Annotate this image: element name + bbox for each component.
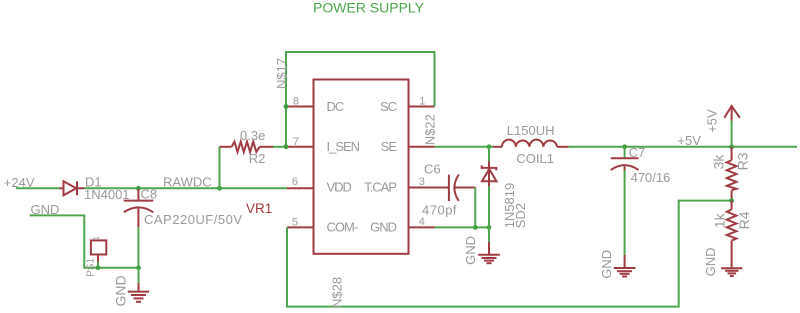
capacitor C8 [124,189,154,227]
svg-text:SE: SE [381,139,398,154]
svg-text:C6: C6 [424,162,441,177]
svg-text:SD2: SD2 [513,203,528,228]
junction R3/R4 [729,198,734,203]
wire R2 to pin7 [273,146,286,148]
diode D1 [59,181,84,195]
pin 1 SC stub [409,106,435,108]
inductor L1 COIL1 [493,140,569,147]
wire C6 down [474,188,476,228]
wire +5V rail [569,146,798,148]
junction pin7 [284,144,289,149]
svg-text:3k: 3k [711,154,727,170]
svg-text:RAWDC: RAWDC [163,175,212,190]
pin 3 T.CAP stub [409,187,435,189]
junction pin8 [284,104,289,109]
diode D2 schottky [488,147,490,162]
capacitor C6 [435,175,476,201]
wire GND net left [30,215,139,267]
svg-text:+24V: +24V [4,175,35,190]
resistor R3 [727,147,737,201]
wire pin4 to gnd net [435,226,490,228]
wire R2 drop [219,147,221,189]
pin 8 DC stub [286,106,314,108]
junction PS1 [96,265,101,270]
svg-text:GND: GND [599,250,614,279]
wire +24V to D1 [16,187,60,189]
ground below R4 [721,268,742,276]
pin 6 VDD stub [287,187,314,189]
junction R3 tap [729,144,734,149]
svg-text:7: 7 [293,136,299,148]
svg-text:GND: GND [463,236,478,265]
svg-text:3: 3 [419,176,425,188]
svg-text:C8: C8 [141,186,158,201]
svg-text:+5V: +5V [704,109,719,133]
svg-text:R3: R3 [734,152,750,170]
ground below D2 [478,242,500,263]
svg-text:N$28: N$28 [330,277,345,308]
svg-text:GND: GND [370,219,397,234]
svg-text:1: 1 [419,95,425,107]
svg-text:VR1: VR1 [246,201,272,216]
svg-text:SC: SC [380,99,397,114]
svg-text:L150UH: L150UH [507,123,555,138]
svg-text:POWER SUPPLY: POWER SUPPLY [313,0,425,16]
part PS1 [91,240,106,262]
pin 2 SE stub [409,146,435,148]
svg-text:CAP220UF/50V: CAP220UF/50V [144,212,243,227]
svg-text:1k: 1k [711,212,727,228]
svg-text:470pf: 470pf [422,203,457,218]
svg-text:R4: R4 [736,211,752,229]
junction C8 tap [136,186,141,191]
resistor R4 [727,201,737,268]
svg-text:4: 4 [419,216,425,228]
junction C6 gnd [473,225,478,230]
svg-text:T.CAP: T.CAP [364,179,396,194]
junction D2 gnd [487,225,492,230]
svg-text:N$17: N$17 [274,58,289,89]
pin 5 COM- stub [287,226,314,228]
svg-text:COM-: COM- [327,219,358,234]
svg-text:R2: R2 [249,151,266,166]
wire SE output [435,146,494,148]
svg-text:470/16: 470/16 [631,170,671,185]
svg-text:+5V: +5V [677,133,701,148]
pin 7 I_SEN stub [286,146,314,148]
svg-text:5: 5 [292,216,298,228]
junction C7 tap [622,144,627,149]
svg-text:GND: GND [703,248,718,277]
svg-text:PS1: PS1 [86,258,97,277]
junction gnd net [136,265,141,270]
svg-text:COIL1: COIL1 [516,151,554,166]
svg-text:N$22: N$22 [422,114,437,145]
ground below C7 [614,255,636,277]
op-amp/regulator U1 VR1 box [314,80,409,254]
capacitor C7 [624,147,626,158]
svg-text:C7: C7 [629,145,646,160]
wire N$17 loop [286,52,435,147]
wire RAWDC [84,187,287,189]
power +5V arrow [731,121,733,147]
ground bottom-left [128,283,150,302]
pin 4 GND stub [409,226,435,228]
wire N$28 COM- net [287,201,732,307]
junction R2 drop [217,186,222,191]
wire C8 to ground net [137,227,139,267]
svg-text:DC: DC [327,99,344,114]
junction D2 tap [487,144,492,149]
resistor R2 [220,142,274,152]
svg-text:VDD: VDD [327,179,352,194]
wire to gnd symbol bottom-left [138,268,140,283]
svg-text:8: 8 [293,96,299,108]
svg-text:1: 1 [92,236,101,241]
svg-text:0.3e: 0.3e [240,128,265,143]
svg-text:I_SEN: I_SEN [327,139,360,154]
svg-text:6: 6 [292,176,298,188]
svg-text:GND: GND [112,275,128,306]
